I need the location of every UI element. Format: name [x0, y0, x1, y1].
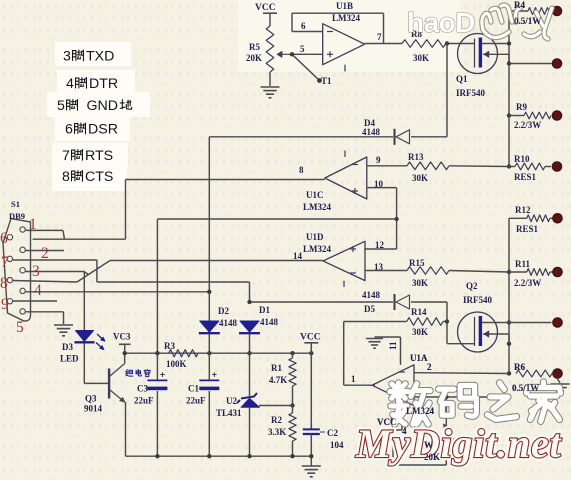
svg-text:104: 104: [330, 440, 344, 450]
wire right bus lower: [508, 218, 510, 373]
svg-text:R13: R13: [408, 152, 424, 162]
wire pin9 DB9 stub: [13, 300, 57, 302]
wire ground bus: [126, 455, 312, 457]
svg-text:LM324: LM324: [303, 244, 331, 254]
op-amp U1A: [372, 365, 414, 406]
wire Q3 base: [84, 382, 108, 384]
terminal dot R4: [552, 6, 562, 16]
wire feedback: [292, 13, 384, 43]
svg-text:6: 6: [0, 230, 8, 247]
svg-text:R6: R6: [514, 362, 525, 372]
svg-text:DSR: DSR: [88, 122, 118, 138]
wire pin8 DB9: [13, 281, 77, 283]
wire pin10: [367, 188, 397, 219]
svg-text:7: 7: [62, 148, 70, 164]
svg-text:22uF: 22uF: [186, 396, 206, 406]
svg-text:6: 6: [301, 21, 306, 31]
svg-text:+: +: [160, 369, 165, 379]
svg-text:9: 9: [376, 155, 381, 165]
svg-text:4.7K: 4.7K: [269, 375, 287, 385]
wire pin2 row: [414, 372, 509, 375]
wire U1D output pin14: [110, 260, 323, 262]
resistor R13: [407, 162, 449, 170]
svg-text:R5: R5: [249, 42, 260, 52]
svg-text:2.2/3W: 2.2/3W: [514, 278, 541, 288]
svg-text:5: 5: [57, 98, 65, 114]
svg-text:R4: R4: [514, 0, 525, 10]
svg-text:5: 5: [16, 319, 24, 336]
op-amp U1B: [323, 24, 365, 65]
wire pin12: [365, 219, 397, 249]
ground bottom: [302, 466, 321, 477]
terminal dot R9: [552, 111, 562, 121]
svg-text:RES1: RES1: [514, 172, 537, 182]
wire pin4 DB9 net: [26, 291, 210, 293]
power stub U1C: [344, 151, 346, 158]
svg-text:GND: GND: [87, 98, 119, 114]
wire diagonal swap: [77, 261, 110, 283]
svg-text:LED: LED: [60, 354, 79, 364]
svg-text:1: 1: [351, 374, 356, 384]
svg-text:7: 7: [377, 32, 382, 42]
node divider junction: [290, 403, 294, 407]
wire terminal 2: [509, 63, 552, 65]
resistor R2: [289, 406, 296, 457]
power port VC3: [119, 344, 131, 353]
wire pin9: [367, 165, 407, 167]
wire R14 to gate: [443, 321, 447, 323]
power stub U1D: [343, 281, 345, 287]
resistor R1: [289, 353, 296, 405]
transistor Q2 IRF540: [458, 312, 498, 352]
svg-text:4148: 4148: [362, 290, 381, 300]
wire U1A feedback box: [344, 322, 407, 386]
svg-text:2: 2: [427, 362, 432, 372]
connector S1 DB9: [3, 219, 31, 322]
svg-text:U1D: U1D: [306, 232, 324, 242]
wire Q2 source: [483, 331, 509, 344]
svg-text:30K: 30K: [412, 278, 428, 288]
wire R15 to R11: [449, 271, 509, 273]
svg-text:0.5/1W: 0.5/1W: [514, 16, 541, 26]
wire pin5: [292, 53, 323, 55]
wire W1 bottom to VCC: [393, 430, 446, 465]
svg-text:12: 12: [375, 240, 385, 250]
node D4 junction: [445, 41, 449, 45]
svg-text:R15: R15: [409, 258, 425, 268]
wire Q2 gate: [447, 343, 475, 345]
svg-text:VCC: VCC: [377, 417, 397, 427]
wire pin4 VCC: [391, 406, 402, 430]
wire pin6: [292, 31, 323, 33]
wire C3 net: [157, 219, 396, 353]
svg-text:IRF540: IRF540: [456, 88, 485, 98]
svg-text:8: 8: [0, 275, 8, 292]
wire U1B output: [365, 43, 402, 45]
svg-text:3.3K: 3.3K: [268, 427, 286, 437]
svg-text:LM324: LM324: [332, 13, 360, 23]
svg-text:3: 3: [63, 49, 71, 65]
wire pin3 DB9: [26, 272, 89, 331]
svg-text:6: 6: [65, 122, 73, 138]
wire D5 row: [250, 302, 448, 344]
svg-text:100K: 100K: [166, 359, 187, 369]
wire R13 to R10: [449, 165, 509, 168]
svg-text:DB9: DB9: [9, 211, 25, 221]
ground U1A pin11: [366, 339, 383, 349]
svg-text:D5: D5: [364, 304, 375, 314]
wire Q1 source: [483, 51, 509, 63]
svg-text:R2: R2: [271, 415, 282, 425]
node R14 junction: [445, 319, 449, 323]
wire collector to rail: [124, 353, 126, 363]
ground below R5: [261, 87, 280, 98]
wire: [269, 13, 271, 26]
resistor R12: [509, 215, 553, 222]
watermark MyDigit.net: [355, 421, 563, 466]
labels over watermark: [377, 0, 541, 462]
svg-text:4148: 4148: [260, 317, 279, 327]
watermark haoDIY: [407, 5, 552, 39]
svg-text:LM324: LM324: [303, 202, 331, 212]
wire emitter down: [125, 402, 127, 456]
wire LED cathode: [83, 344, 85, 384]
svg-text:R1: R1: [271, 363, 282, 373]
svg-text:haoD: haoD: [407, 7, 475, 38]
terminal dot R11: [553, 267, 563, 277]
wire pin7 DB9 net: [13, 260, 250, 302]
svg-text:LM324: LM324: [406, 406, 434, 416]
node D5 left junction: [247, 300, 251, 304]
op-amp U1D: [323, 241, 365, 280]
svg-text:Q2: Q2: [466, 281, 478, 291]
node pin5 junction: [290, 52, 294, 56]
svg-text:U1B: U1B: [336, 1, 353, 11]
wire pin13: [365, 270, 407, 272]
svg-text:5: 5: [300, 44, 305, 54]
svg-text:2.2/3W: 2.2/3W: [514, 120, 541, 130]
svg-text:RTS: RTS: [85, 148, 113, 164]
label tantalum cap note: [126, 369, 150, 376]
svg-text:C3: C3: [137, 384, 148, 394]
terminal dot R10: [552, 162, 562, 172]
svg-text:W: W: [424, 440, 433, 450]
wire U1C output pin8 to DB9 pin1: [26, 180, 325, 240]
capacitor C2 104: [303, 353, 320, 466]
wire right bus upper: [508, 11, 510, 167]
svg-text:30K: 30K: [412, 327, 428, 337]
svg-text:U1A: U1A: [410, 353, 428, 363]
svg-text:U1C: U1C: [306, 190, 324, 200]
wire: [269, 72, 271, 86]
power VCC top: [255, 3, 277, 13]
transistor Q1 IRF540: [458, 34, 498, 74]
svg-text:+: +: [212, 369, 217, 379]
svg-text:4148: 4148: [219, 318, 238, 328]
power stub U1B: [344, 65, 346, 72]
capacitor C1 22uF: [199, 353, 219, 456]
terminal dot 2: [552, 59, 562, 69]
wire pin11 to ground: [375, 337, 401, 365]
watermark shuma-zhijia: [390, 383, 430, 424]
wire D4 row: [209, 44, 447, 137]
resistor R10: [509, 163, 551, 170]
LED D3: [75, 331, 106, 350]
svg-text:D3: D3: [62, 342, 73, 352]
svg-text:R9: R9: [516, 102, 527, 112]
ground right edge: [551, 378, 570, 395]
svg-text:20K: 20K: [246, 53, 262, 63]
diode D5 4148: [395, 294, 410, 310]
svg-text:0.5/1W: 0.5/1W: [512, 383, 539, 393]
svg-text:T1: T1: [321, 76, 332, 86]
node W1 junction: [444, 395, 448, 399]
node 10-12 junction: [394, 217, 398, 221]
diode D2 4148: [199, 321, 220, 353]
svg-text:R10: R10: [514, 154, 530, 164]
diode D4 4148: [395, 129, 410, 145]
terminal dot Q2 drain: [553, 318, 563, 328]
svg-text:VCC: VCC: [300, 333, 321, 343]
test point T1: [292, 54, 322, 83]
svg-text:30K: 30K: [412, 173, 428, 183]
potentiometer W1: [444, 397, 456, 465]
svg-text:D2: D2: [218, 306, 229, 316]
op-amp U1C: [325, 157, 367, 199]
resistor R8: [402, 40, 446, 48]
resistor R11: [509, 269, 553, 276]
wire R8 to Q1 gate: [446, 43, 475, 45]
svg-text:22uF: 22uF: [134, 396, 154, 406]
svg-text:RES1: RES1: [516, 224, 539, 234]
ground DB9: [54, 325, 73, 336]
svg-text:C1: C1: [188, 384, 199, 394]
svg-text:7: 7: [1, 254, 9, 271]
svg-text:CTS: CTS: [85, 169, 113, 185]
svg-text:11: 11: [388, 341, 398, 350]
svg-text:C2: C2: [327, 428, 338, 438]
svg-text:9: 9: [1, 296, 9, 313]
svg-text:IRF540: IRF540: [463, 295, 492, 305]
svg-text:MyDigit.net: MyDigit.net: [355, 421, 563, 466]
svg-text:8: 8: [299, 165, 304, 175]
wire Q2 drain: [481, 322, 552, 324]
shunt regulator U2 TL431: [237, 353, 293, 456]
svg-text:S1: S1: [11, 199, 20, 209]
svg-text:DTR: DTR: [89, 76, 118, 92]
wire D2 column: [208, 137, 210, 321]
capacitor C3 22uF: [147, 353, 167, 456]
transistor Q3 9014: [108, 364, 125, 403]
svg-text:20K: 20K: [424, 452, 440, 462]
resistor R14: [407, 318, 443, 326]
resistor R6: [516, 370, 552, 377]
svg-text:4148: 4148: [362, 127, 381, 137]
svg-text:30K: 30K: [413, 53, 429, 63]
wire pin2 DB9 stub: [26, 250, 64, 252]
svg-text:TXD: TXD: [86, 49, 114, 65]
svg-text:VCC: VCC: [255, 3, 276, 13]
resistor R15: [407, 267, 449, 275]
diode D1 4148: [239, 321, 260, 353]
svg-text:9014: 9014: [84, 404, 103, 414]
svg-text:VC3: VC3: [113, 332, 131, 342]
svg-text:4: 4: [34, 282, 42, 299]
wire noninverting row: [414, 396, 509, 398]
svg-text:R14: R14: [411, 307, 427, 317]
terminal dot R12: [553, 214, 563, 224]
svg-text:Q3: Q3: [85, 394, 97, 404]
svg-text:4: 4: [66, 76, 74, 92]
resistor R9: [509, 112, 551, 119]
svg-text:8: 8: [62, 169, 70, 185]
svg-text:R12: R12: [515, 205, 531, 215]
svg-text:4: 4: [402, 426, 407, 436]
svg-text:R11: R11: [515, 259, 531, 269]
wire Q1 drain: [481, 43, 509, 45]
svg-text:D1: D1: [259, 305, 270, 315]
svg-text:U2: U2: [226, 396, 237, 406]
label C2: [320, 431, 325, 433]
wire pin5 to ground: [26, 312, 64, 324]
resistor R3: [169, 350, 198, 357]
power VCC bottom: [300, 333, 321, 354]
resistor R4: [509, 8, 553, 15]
potentiometer R5: [266, 26, 292, 72]
wire supply rail: [125, 352, 312, 354]
svg-text:TL431: TL431: [216, 408, 242, 418]
svg-text:R3: R3: [164, 341, 175, 351]
terminal dot R6: [553, 369, 563, 379]
svg-text:Q1: Q1: [456, 74, 468, 84]
svg-text:14: 14: [293, 251, 303, 261]
